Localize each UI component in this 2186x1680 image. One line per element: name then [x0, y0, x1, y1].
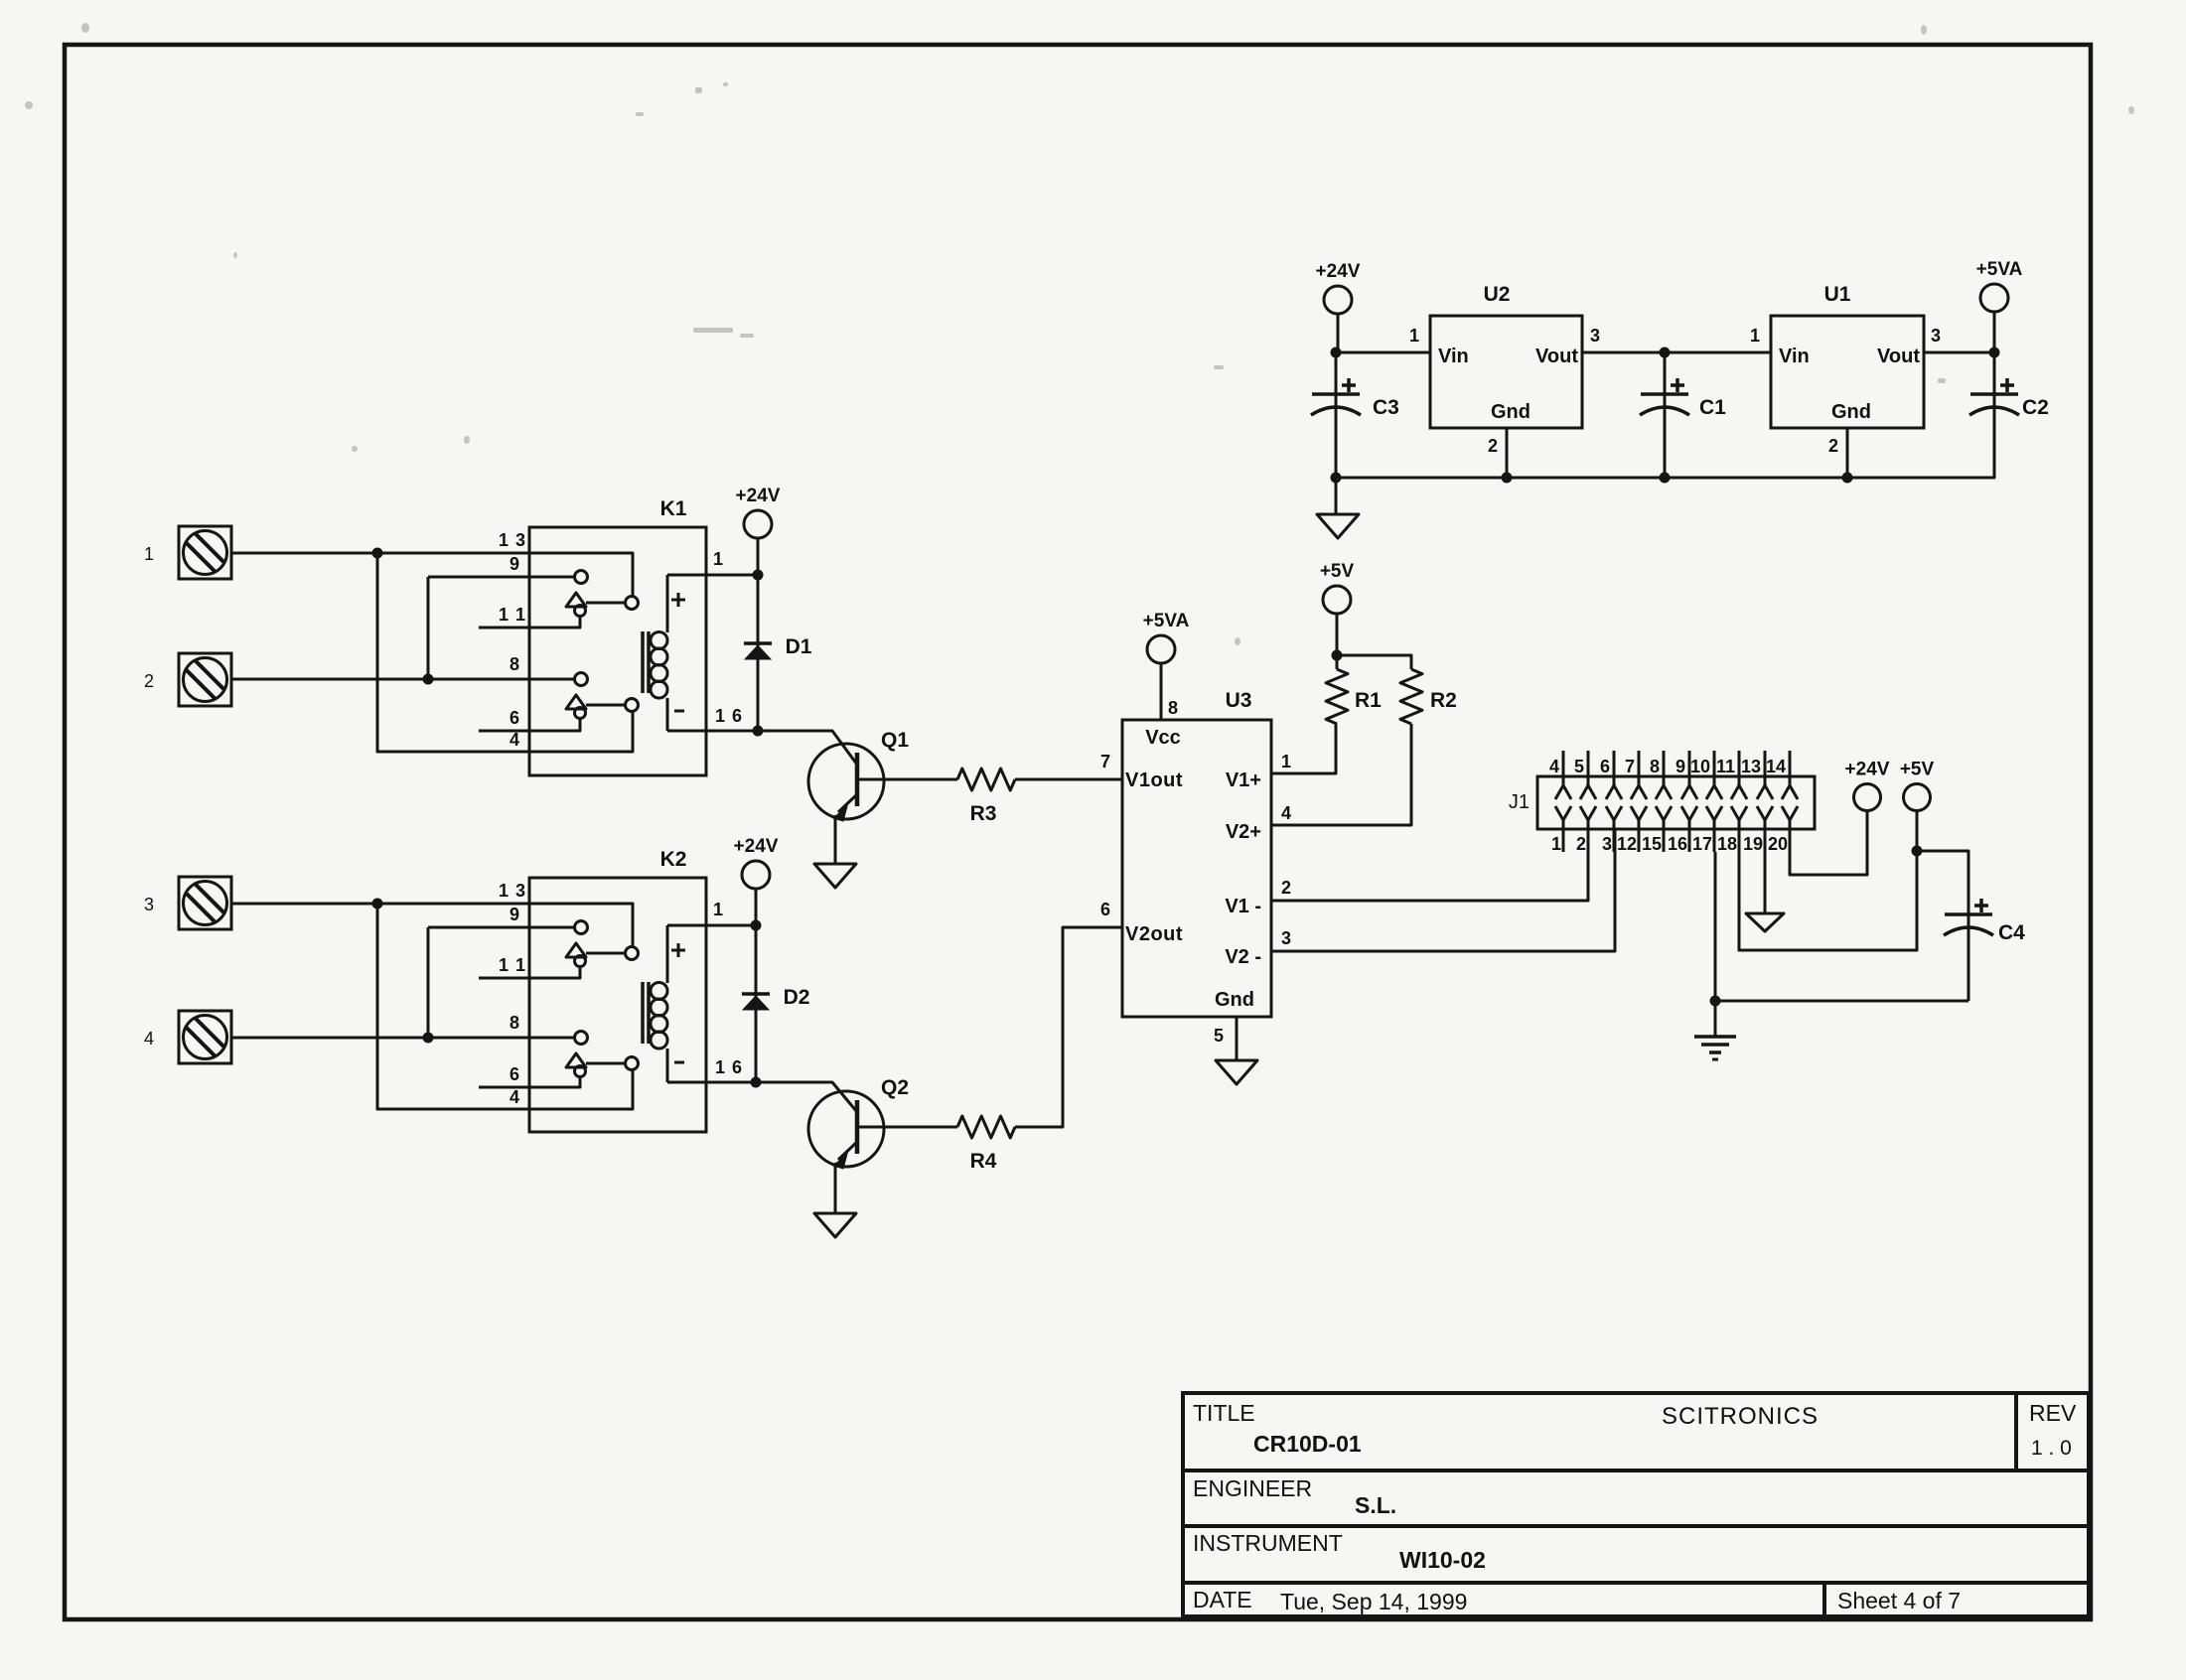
wire J1 pin20 to +24V: [1790, 811, 1867, 875]
svg-text:Gnd: Gnd: [1215, 989, 1254, 1011]
power +5VA terminal (top right): [1980, 284, 2008, 312]
svg-text:CR10D-01: CR10D-01: [1253, 1431, 1362, 1457]
relay K1 wire 13-to-contact: [231, 553, 633, 596]
svg-text:+5VA: +5VA: [1143, 611, 1190, 631]
connector J1 pin 4 (top): [1562, 751, 1565, 785]
connector J1 pin 5 (top): [1587, 751, 1590, 785]
wire J1 pin17 to ground net: [1714, 852, 1717, 1001]
connector J1 pin 16 (bottom): [1681, 806, 1697, 820]
voltage regulator U1 box: [1771, 316, 1924, 428]
relay K2 pin 1 wire: [667, 924, 758, 927]
relay K1 pin 1 wire: [667, 574, 758, 577]
svg-text:18: 18: [1717, 834, 1737, 854]
ic U3 box: [1122, 720, 1271, 1017]
wire J1 pin18 to +5V net: [1739, 851, 1917, 950]
svg-text:12: 12: [1617, 834, 1637, 854]
svg-text:14: 14: [1766, 757, 1786, 776]
relay K2 lower wiper arrow: [566, 1053, 586, 1067]
svg-text:3: 3: [1590, 326, 1600, 346]
relay K2 upper contact link wire: [586, 952, 626, 955]
node K1 pin16 junction: [753, 726, 764, 737]
title block row divider 1: [1183, 1469, 2089, 1472]
relay K2 upper wiper pivot: [575, 956, 586, 967]
ground rail junction at U2 pin2: [1502, 473, 1513, 484]
svg-text:U1: U1: [1824, 283, 1851, 306]
capacitor C2: [1993, 352, 1996, 394]
svg-text:U2: U2: [1484, 283, 1511, 306]
node +24V input junction: [1331, 348, 1342, 358]
svg-text:+24V: +24V: [1845, 760, 1890, 780]
svg-text:2: 2: [144, 671, 154, 691]
resistor R4: [957, 1116, 1015, 1138]
svg-text:REV: REV: [2029, 1400, 2077, 1426]
relay K2 box: [529, 878, 706, 1132]
relay K2 wire 13-to-contact: [231, 904, 633, 946]
svg-text:8: 8: [510, 654, 519, 674]
terminal 2: [179, 653, 231, 706]
relay K1 coil core: [641, 631, 645, 693]
svg-text:3: 3: [1931, 326, 1941, 346]
svg-text:V2+: V2+: [1226, 821, 1261, 843]
power +5V terminal (R1/R2): [1323, 586, 1351, 614]
wire +5VA to U3 Vcc pin 8: [1160, 663, 1163, 720]
svg-text:D1: D1: [786, 635, 812, 658]
connector J1 pin 13 (top): [1764, 751, 1767, 785]
svg-text:4: 4: [510, 1087, 519, 1107]
node junction T1 wire: [372, 548, 383, 559]
relay K1 pin 6 wire: [479, 718, 580, 731]
svg-text:5: 5: [1214, 1026, 1224, 1046]
relay K1 pin 16 wire: [667, 730, 758, 733]
connector J1 pin 14 (top): [1789, 751, 1792, 785]
wire node to U2 Vin pin 1: [1336, 351, 1430, 354]
svg-text:1: 1: [1409, 326, 1419, 346]
svg-text:SCITRONICS: SCITRONICS: [1662, 1403, 1819, 1430]
relay K1 coil plus: [671, 593, 685, 607]
wire vertical 9-8: [427, 927, 430, 1038]
wire +24V to node: [1337, 314, 1340, 352]
relay K1 upper right contact: [626, 597, 639, 610]
svg-text:INSTRUMENT: INSTRUMENT: [1193, 1530, 1343, 1556]
node junction pin8: [423, 1033, 434, 1044]
transistor Q2 emitter: [838, 1142, 857, 1160]
svg-text:V2out: V2out: [1125, 923, 1183, 945]
relay K2 coil plus: [671, 943, 685, 957]
relay K2 lower fixed contact pin 8: [575, 1032, 588, 1045]
svg-text:V1 -: V1 -: [1225, 896, 1261, 917]
connector J1 pin 15 (bottom): [1656, 806, 1672, 820]
svg-text:Q1: Q1: [881, 729, 909, 752]
svg-text:C3: C3: [1373, 396, 1399, 419]
power +24V terminal (J1): [1854, 784, 1881, 811]
transistor Q1: [808, 744, 884, 819]
wire +5V node to C4: [1917, 851, 1968, 914]
svg-text:1 . 0: 1 . 0: [2031, 1437, 2072, 1460]
node C1 top junction: [1660, 348, 1671, 358]
svg-text:1 3: 1 3: [499, 881, 526, 901]
wire J1 pin19 to ground: [1764, 852, 1767, 913]
svg-text:1 1: 1 1: [499, 605, 526, 625]
svg-text:J1: J1: [1509, 791, 1530, 813]
wire +5VA terminal to node: [1993, 312, 1996, 352]
svg-text:R3: R3: [970, 802, 997, 825]
svg-text:Vin: Vin: [1438, 346, 1469, 367]
svg-text:6: 6: [1100, 900, 1110, 919]
connector J1 pin 9 (top): [1688, 751, 1691, 785]
earth ground symbol: [1714, 1001, 1717, 1036]
svg-text:TITLE: TITLE: [1193, 1400, 1255, 1426]
voltage regulator U2 box: [1430, 316, 1582, 428]
relay K2 lower wiper pivot: [575, 1066, 586, 1077]
terminal 1: [179, 526, 231, 579]
svg-text:2: 2: [1828, 436, 1838, 456]
relay K2 upper fixed contact pin 9: [575, 921, 588, 934]
node +5VA junction: [1989, 348, 2000, 358]
svg-text:Vout: Vout: [1535, 346, 1578, 367]
svg-text:4: 4: [1281, 803, 1291, 823]
title block row divider 3: [1183, 1581, 2089, 1585]
terminal 3: [179, 877, 231, 929]
relay K1 pin 9 wire: [428, 576, 574, 579]
svg-text:+5V: +5V: [1900, 760, 1935, 780]
relay K1 coil winding: [666, 575, 669, 632]
svg-text:1: 1: [1551, 834, 1561, 854]
ground symbol (J1 pin19): [1746, 913, 1784, 931]
ground rail junction at U1 pin2: [1842, 473, 1853, 484]
svg-text:3: 3: [144, 895, 154, 914]
transistor Q1 emitter: [838, 794, 857, 812]
node +5V junction: [1912, 846, 1923, 857]
svg-text:V2 -: V2 -: [1225, 946, 1261, 968]
resistor R1: [1336, 655, 1339, 669]
wire node to R2 top: [1337, 655, 1411, 669]
svg-text:1 6: 1 6: [715, 1057, 743, 1077]
node K2 pin1 junction: [751, 920, 762, 931]
svg-text:ENGINEER: ENGINEER: [1193, 1475, 1312, 1501]
svg-text:1: 1: [713, 900, 723, 919]
connector J1 box: [1537, 776, 1815, 829]
wire R4 to U3 V2out pin 6: [1015, 927, 1122, 1127]
svg-text:1: 1: [1281, 752, 1291, 771]
title block sheet divider: [1822, 1583, 1826, 1616]
wire +24V to K2 pin1 node: [755, 889, 758, 925]
relay K1 upper contact link wire: [586, 602, 626, 605]
power +5VA terminal (U3): [1147, 635, 1175, 663]
svg-text:+5V: +5V: [1320, 561, 1355, 582]
relay K1 pin 8 wire: [231, 678, 574, 681]
relay K1 upper wiper arrow: [566, 593, 586, 607]
svg-text:8: 8: [1650, 757, 1660, 776]
node junction T3 wire: [372, 899, 383, 910]
svg-text:WI10-02: WI10-02: [1399, 1547, 1486, 1573]
relay K2 pin 16 wire: [667, 1081, 758, 1084]
connector J1 pin 12 (bottom): [1631, 806, 1647, 820]
svg-text:4: 4: [510, 730, 519, 750]
connector J1 pin 19 (bottom): [1757, 806, 1773, 820]
svg-text:R4: R4: [970, 1150, 997, 1173]
svg-text:C2: C2: [2022, 396, 2049, 419]
svg-text:9: 9: [1676, 757, 1685, 776]
ground symbol (power section): [1317, 514, 1359, 538]
wire R3 to U3 V1out pin 7: [1015, 778, 1122, 781]
svg-text:Q2: Q2: [881, 1076, 909, 1099]
svg-text:4: 4: [144, 1029, 154, 1049]
wire K2 pin16 to Q2 collector: [756, 1082, 857, 1112]
svg-text:D2: D2: [784, 986, 810, 1009]
resistor R3: [957, 769, 1015, 790]
relay K1 upper fixed contact pin 9: [575, 571, 588, 584]
wire Q1 base to R3: [857, 778, 957, 781]
wire +24V to K1 pin1 node: [757, 538, 760, 575]
svg-text:Tue, Sep 14, 1999: Tue, Sep 14, 1999: [1280, 1589, 1467, 1614]
relay K2 upper right contact: [626, 947, 639, 960]
connector J1 pin 8 (top): [1663, 751, 1666, 785]
wire +5V terminal to node: [1916, 811, 1919, 851]
relay K1 lower wiper arrow: [566, 695, 586, 709]
svg-text:9: 9: [510, 905, 519, 924]
diode D2: [755, 925, 758, 1082]
svg-text:6: 6: [510, 708, 519, 728]
svg-text:8: 8: [1168, 698, 1178, 718]
relay K1 lower fixed contact pin 8: [575, 673, 588, 686]
svg-text:20: 20: [1768, 834, 1788, 854]
svg-text:+5VA: +5VA: [1976, 259, 2023, 280]
relay K2 coil core: [641, 982, 645, 1044]
title block outer box: [1183, 1393, 2089, 1616]
connector J1 pin 17 (bottom): [1706, 806, 1722, 820]
connector J1 pin 6 (top): [1613, 751, 1616, 785]
node R1/R2 top junction: [1332, 650, 1343, 661]
svg-text:V1out: V1out: [1125, 770, 1183, 791]
wire rail to ground symbol: [1335, 478, 1338, 514]
relay K2 lower right contact: [626, 1057, 639, 1070]
ground rail junction at C1: [1660, 473, 1671, 484]
resistor R2: [1400, 669, 1422, 724]
svg-text:S.L.: S.L.: [1355, 1492, 1396, 1518]
wire V1- pin 2 to J1 pin 2: [1271, 829, 1588, 901]
svg-text:19: 19: [1743, 834, 1763, 854]
svg-text:17: 17: [1692, 834, 1712, 854]
connector J1 pin 7 (top): [1638, 751, 1641, 785]
ground symbol (Q2): [814, 1213, 856, 1237]
svg-text:U3: U3: [1226, 689, 1252, 712]
svg-text:+24V: +24V: [734, 836, 779, 857]
ground rail wire (power section): [1336, 452, 1994, 478]
svg-text:3: 3: [1281, 928, 1291, 948]
svg-text:7: 7: [1100, 752, 1110, 771]
wire U3 Gnd pin 5 to ground: [1236, 1017, 1239, 1060]
power +5V terminal (J1): [1904, 784, 1931, 811]
svg-text:Vout: Vout: [1877, 346, 1920, 367]
wire +5V to R1/R2 node: [1336, 614, 1339, 655]
ground symbol (Q1): [814, 864, 856, 888]
wire K1 pin16 to Q1 collector: [758, 731, 857, 765]
svg-text:10: 10: [1690, 757, 1710, 776]
svg-text:1 1: 1 1: [499, 955, 526, 975]
svg-text:R2: R2: [1430, 689, 1457, 712]
ground rail junction at C3: [1331, 473, 1342, 484]
relay K2 coil minus: [674, 1061, 684, 1064]
title block row divider 2: [1183, 1524, 2089, 1528]
svg-text:+24V: +24V: [736, 486, 781, 506]
wire V2- pin 3 to J1 pin 3: [1271, 829, 1615, 951]
svg-text:Vin: Vin: [1779, 346, 1810, 367]
ground symbol (U3): [1216, 1060, 1257, 1084]
wire J1 pin2 to V1- net: [1587, 852, 1590, 901]
transistor Q2: [808, 1091, 884, 1167]
connector J1 pin 20 (bottom): [1782, 806, 1798, 820]
svg-text:K1: K1: [660, 497, 687, 520]
svg-text:C1: C1: [1699, 396, 1726, 419]
svg-text:Gnd: Gnd: [1831, 401, 1871, 423]
wire vertical 9-8: [427, 577, 430, 679]
svg-text:1: 1: [144, 544, 154, 564]
svg-text:9: 9: [510, 554, 519, 574]
relay K1 coil minus: [674, 710, 684, 713]
svg-text:2: 2: [1488, 436, 1498, 456]
relay K2 pin 6 wire: [479, 1076, 580, 1087]
svg-text:1 6: 1 6: [715, 706, 743, 726]
svg-text:15: 15: [1642, 834, 1662, 854]
relay K1 lower right contact: [626, 699, 639, 712]
connector J1 pin 3 (bottom): [1606, 806, 1622, 820]
svg-text:C4: C4: [1998, 921, 2025, 944]
capacitor C4: [1967, 914, 1970, 932]
svg-text:4: 4: [1549, 757, 1559, 776]
svg-text:13: 13: [1741, 757, 1761, 776]
wire V1+ pin 1 to R1: [1271, 724, 1336, 773]
svg-text:16: 16: [1668, 834, 1687, 854]
relay K2 pin 9 wire: [428, 926, 574, 929]
relay K2 wire 4-to-contact: [377, 904, 633, 1109]
svg-text:7: 7: [1625, 757, 1635, 776]
relay K1 lower contact link wire: [586, 704, 626, 707]
svg-text:2: 2: [1576, 834, 1586, 854]
title block REV divider: [2014, 1393, 2018, 1470]
connector J1 pin 2 (bottom): [1580, 806, 1596, 820]
relay K2 pin 11 wire: [479, 966, 580, 978]
svg-text:1: 1: [1750, 326, 1760, 346]
svg-text:3: 3: [1602, 834, 1612, 854]
node K1 pin1 junction: [753, 570, 764, 581]
power +24V terminal (top): [1324, 286, 1352, 314]
wire U1 Gnd pin 2 to ground rail: [1846, 428, 1849, 478]
wire J1 pin3 to V2- net: [1614, 852, 1617, 951]
wire C4 to ground junction: [1715, 1000, 1968, 1003]
relay K2 lower contact link wire: [586, 1062, 626, 1065]
svg-text:+24V: +24V: [1316, 261, 1361, 282]
power +24V terminal (K1): [744, 510, 772, 538]
svg-text:2: 2: [1281, 878, 1291, 898]
svg-text:6: 6: [1600, 757, 1610, 776]
relay K1 lower wiper pivot: [575, 708, 586, 719]
capacitor C3: [1335, 352, 1338, 394]
relay K1 wire 4-to-contact: [377, 553, 633, 752]
connector J1 pin 11 (top): [1738, 751, 1741, 785]
relay K2 coil winding: [666, 925, 669, 983]
svg-text:DATE: DATE: [1193, 1587, 1252, 1612]
svg-text:11: 11: [1716, 757, 1735, 776]
wire U1 Vout pin 3 to +5VA node: [1924, 351, 1994, 354]
relay K1 pin 11 wire: [479, 616, 580, 628]
svg-text:Sheet 4 of 7: Sheet 4 of 7: [1837, 1588, 1961, 1613]
wire V2+ pin 4 to R2: [1271, 724, 1411, 825]
svg-text:8: 8: [510, 1013, 519, 1033]
relay K2 pin 8 wire: [231, 1037, 574, 1040]
capacitor C1: [1664, 352, 1667, 394]
connector J1 pin 10 (top): [1713, 751, 1716, 785]
node ground junction: [1710, 996, 1721, 1007]
wire U2 Gnd pin 2 to ground rail: [1506, 428, 1509, 478]
relay K1 upper wiper pivot: [575, 606, 586, 617]
svg-text:Gnd: Gnd: [1491, 401, 1530, 423]
diode D1: [757, 575, 760, 731]
wire U2 Vout pin 3 to node C1: [1582, 351, 1771, 354]
svg-text:V1+: V1+: [1226, 770, 1261, 791]
connector J1 pin 18 (bottom): [1731, 806, 1747, 820]
relay K2 upper wiper arrow: [566, 943, 586, 957]
terminal 4: [179, 1011, 231, 1063]
node K2 pin16 junction: [751, 1077, 762, 1088]
power +24V terminal (K2): [742, 861, 770, 889]
svg-text:6: 6: [510, 1064, 519, 1084]
svg-text:1: 1: [713, 549, 723, 569]
svg-text:R1: R1: [1355, 689, 1382, 712]
svg-text:1 3: 1 3: [499, 530, 526, 550]
svg-text:Vcc: Vcc: [1145, 727, 1181, 749]
svg-text:5: 5: [1574, 757, 1584, 776]
wire Q2 base to R4: [857, 1126, 957, 1129]
node junction pin8: [423, 674, 434, 685]
connector J1 pin 1 (bottom): [1555, 806, 1571, 820]
svg-text:K2: K2: [660, 848, 687, 871]
relay K1 box: [529, 527, 706, 775]
